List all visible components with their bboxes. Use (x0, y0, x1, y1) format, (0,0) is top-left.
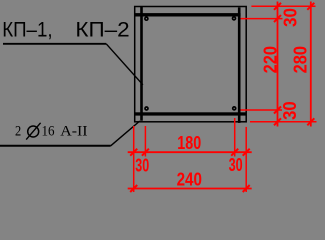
diameter symbol slash (26, 123, 40, 140)
stirrup left bar (140, 7, 143, 121)
bottom extension line left-outer (133, 126, 135, 192)
right extension line top-outer (251, 5, 315, 7)
rebar dot bottom-right (233, 107, 236, 110)
rebar dot bottom-left (145, 107, 148, 110)
diameter symbol circle (28, 126, 39, 137)
svg-text:A-II: A-II (60, 123, 87, 139)
svg-text:16: 16 (42, 123, 55, 139)
right dimension line 280 (310, 2, 312, 127)
svg-text:2: 2 (15, 123, 21, 139)
svg-text:30: 30 (229, 155, 243, 175)
svg-text:220: 220 (260, 46, 280, 73)
svg-text:30: 30 (280, 8, 300, 27)
svg-text:240: 240 (177, 169, 202, 189)
right extension line bottom-inner (241, 109, 283, 111)
label leader to stirrup (106, 44, 143, 85)
svg-text:280: 280 (290, 46, 310, 73)
right dimension line 30/220/30 chain (277, 2, 279, 127)
rebar note underline (0, 145, 111, 147)
tick marks bottom chain (130, 149, 250, 192)
svg-text:30: 30 (135, 156, 149, 176)
tick marks right chains (274, 3, 314, 126)
label underline (3, 43, 106, 45)
svg-text:30: 30 (280, 101, 300, 120)
right extension line bottom-outer (250, 121, 317, 123)
bottom extension line right-outer (245, 127, 247, 192)
rebar dot top-right (233, 17, 236, 20)
svg-text:180: 180 (177, 133, 201, 153)
rebar dot top-left (145, 17, 148, 20)
svg-text:КП–2: КП–2 (75, 18, 129, 42)
stirrup right bar (238, 7, 241, 123)
outline rectangle (product contour) (135, 7, 247, 122)
rebar note leader to bottom-left corner (111, 121, 140, 146)
bottom dimension line 240 (128, 188, 252, 190)
bottom extension line right-inner (234, 118, 236, 157)
stirrup bottom bar (135, 112, 247, 115)
bottom extension line left-inner (144, 126, 146, 157)
svg-text:КП–1,: КП–1, (2, 18, 52, 42)
bottom dimension line 180/30 chain (128, 151, 252, 153)
right extension line top-inner (241, 18, 283, 20)
stirrup top bar (134, 13, 240, 16)
